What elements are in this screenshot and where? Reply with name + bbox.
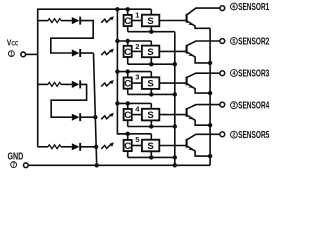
wire C4 top bbox=[127, 103, 129, 109]
svg-text:S: S bbox=[147, 141, 153, 152]
svg-text:3: 3 bbox=[232, 103, 235, 109]
wire C1 bottom bbox=[127, 26, 129, 32]
pin 2 circled label bbox=[230, 131, 237, 138]
pin 7 circled bbox=[11, 162, 17, 168]
junction Vcc bus channel 3 bbox=[115, 69, 119, 73]
wire C5 to S5 bbox=[132, 145, 142, 147]
schmitt trigger S3 bbox=[142, 77, 159, 89]
light arrow channel 4 bbox=[101, 114, 112, 119]
transistor Q1 emitter bbox=[187, 21, 210, 28]
wire S4 output to base bbox=[159, 114, 186, 116]
LED D5 bbox=[72, 143, 80, 150]
transistor Q2 emitter arrow bbox=[188, 55, 194, 57]
light arrow channel 2 bbox=[101, 50, 112, 55]
transistor Q1 base bar bbox=[186, 14, 188, 23]
svg-text:S: S bbox=[147, 16, 153, 27]
LED D1 bbox=[72, 17, 80, 24]
wire C2 to S2 bbox=[132, 50, 142, 52]
junction Q3 emitter-emitter bus bbox=[208, 91, 212, 95]
left Vcc bus wire bbox=[37, 9, 39, 147]
junction S3 bottom bbox=[149, 92, 153, 96]
pin 5 circled label bbox=[230, 38, 237, 45]
transistor Q4 emitter arrow bbox=[188, 118, 194, 120]
schmitt trigger S5 bbox=[142, 140, 159, 152]
svg-text:SENSOR5: SENSOR5 bbox=[238, 130, 270, 141]
junction channel 5 bottom-detector bus bbox=[173, 155, 177, 159]
channel 5 top wire bbox=[117, 133, 151, 135]
junction S4 bottom bbox=[149, 124, 153, 128]
pin 3 circled label bbox=[230, 102, 237, 109]
svg-text:1: 1 bbox=[10, 51, 13, 57]
photodetector C4 bbox=[124, 109, 132, 120]
wire D5 cathode to cathode bus bbox=[80, 146, 96, 148]
wire S5 bottom bbox=[150, 151, 152, 157]
transistor Q3 collector bbox=[187, 73, 220, 77]
channel 1 bottom wire bbox=[128, 31, 175, 33]
transistor Q2 emitter bbox=[187, 52, 210, 63]
channel 2 bottom wire bbox=[128, 63, 175, 65]
wire S5 output to base bbox=[159, 145, 186, 147]
wire S3 output to base bbox=[159, 82, 186, 84]
junction D4-cathode bus bbox=[93, 115, 97, 119]
output pin 6 terminal bbox=[220, 6, 225, 11]
svg-text:C: C bbox=[124, 16, 131, 27]
wire C1 to S1 bbox=[132, 20, 142, 22]
transistor Q5 base bar bbox=[186, 139, 188, 148]
junction channel 3 bottom-detector bus bbox=[173, 92, 177, 96]
svg-text:7: 7 bbox=[12, 162, 15, 168]
transistor Q5 emitter arrow bbox=[188, 149, 194, 151]
Vcc distribution bus wire bbox=[117, 9, 127, 134]
wire D2 cathode to cathode bus bbox=[80, 52, 93, 54]
output pin 5 terminal bbox=[220, 39, 225, 44]
transistor Q5 collector bbox=[187, 134, 220, 139]
svg-text:3: 3 bbox=[135, 73, 139, 82]
wire S5 top bbox=[150, 134, 152, 140]
wire C5 top bbox=[127, 134, 129, 140]
wire C3 bottom bbox=[127, 89, 129, 95]
wire S1 output to base bbox=[159, 20, 186, 22]
pin 6 circled label bbox=[230, 3, 237, 10]
svg-text:S: S bbox=[147, 47, 153, 58]
resistor R3 bbox=[38, 146, 48, 148]
wire D3 cathode to serpentine bbox=[51, 84, 86, 117]
wire S1 bottom bbox=[150, 26, 152, 31]
channel 4 bottom wire bbox=[128, 126, 175, 128]
junction Q2 emitter-emitter bus bbox=[208, 61, 212, 65]
resistor R2 bbox=[38, 83, 48, 85]
light arrow channel 5 bbox=[101, 144, 112, 149]
svg-text:SENSOR4: SENSOR4 bbox=[238, 101, 270, 112]
Vcc pin terminal bbox=[21, 52, 26, 57]
wire S4 bottom bbox=[150, 120, 152, 126]
transistor Q4 emitter bbox=[187, 115, 210, 125]
transistor Q4 collector bbox=[187, 105, 220, 109]
junction S5 bottom bbox=[149, 155, 153, 159]
channel 3 top wire bbox=[117, 71, 151, 73]
wire S1 top bbox=[150, 9, 152, 14]
top Vcc bus wire bbox=[37, 8, 151, 10]
svg-text:5: 5 bbox=[232, 39, 235, 45]
channel 4 top wire bbox=[117, 102, 151, 104]
junction Q5 emitter-emitter bus bbox=[208, 154, 212, 158]
svg-text:C: C bbox=[124, 110, 131, 121]
junction Vcc bus channel 2 bbox=[115, 39, 119, 43]
wire S3 bottom bbox=[150, 89, 152, 95]
schmitt trigger S4 bbox=[142, 109, 159, 121]
junction D5-cathode bus bbox=[94, 145, 98, 149]
channel 3 bottom wire bbox=[128, 93, 175, 95]
junction channel 2 bottom-detector bus bbox=[173, 62, 177, 66]
photodetector C2 bbox=[124, 46, 132, 57]
wire C5 bottom bbox=[127, 151, 129, 157]
ground bus wire bbox=[28, 164, 210, 166]
pin 4 circled label bbox=[230, 70, 237, 77]
emitter bus wire bbox=[209, 28, 211, 165]
wire Vcc pin to left bus bbox=[26, 53, 38, 55]
schmitt trigger S1 bbox=[142, 15, 159, 27]
junction Vcc bus channel 1 bbox=[115, 7, 119, 11]
junction C5 top bbox=[126, 132, 130, 136]
wire S3 top bbox=[150, 72, 152, 78]
output pin 4 terminal bbox=[220, 71, 225, 76]
wire C1 top bbox=[127, 9, 129, 15]
wire C3 top bbox=[127, 72, 129, 78]
svg-text:SENSOR1: SENSOR1 bbox=[238, 2, 270, 13]
transistor Q2 collector bbox=[187, 41, 220, 46]
light arrow channel 3 bbox=[101, 81, 112, 86]
svg-text:S: S bbox=[147, 110, 153, 121]
svg-text:2: 2 bbox=[232, 133, 235, 139]
wire C2 bottom bbox=[127, 57, 129, 64]
junction Vcc bus channel 4 bbox=[115, 101, 119, 105]
photodetector C5 bbox=[124, 140, 132, 151]
junction S2 bottom bbox=[149, 62, 153, 66]
wire S2 bottom bbox=[150, 57, 152, 64]
junction C3 top bbox=[126, 69, 130, 73]
junction C1 top bbox=[126, 7, 130, 11]
channel 2 top wire bbox=[117, 40, 151, 42]
svg-text:GND: GND bbox=[8, 151, 24, 162]
junction cathode bus-ground bus bbox=[95, 163, 99, 167]
wire C4 to S4 bbox=[132, 114, 142, 116]
pin 1 circled bbox=[8, 51, 14, 57]
svg-text:SENSOR2: SENSOR2 bbox=[238, 37, 269, 48]
transistor Q1 emitter arrow bbox=[188, 24, 194, 26]
transistor Q3 emitter arrow bbox=[188, 86, 194, 88]
GND pin terminal bbox=[23, 163, 28, 168]
wire S2 output to base bbox=[159, 50, 186, 52]
svg-text:6: 6 bbox=[232, 5, 235, 11]
junction channel 4 bottom-detector bus bbox=[173, 124, 177, 128]
output pin 2 terminal bbox=[220, 132, 225, 137]
junction detector bus-ground bus bbox=[173, 163, 177, 167]
transistor Q2 base bar bbox=[186, 45, 188, 54]
wire S4 top bbox=[150, 103, 152, 108]
junction C2 top bbox=[126, 39, 130, 43]
transistor Q3 base bar bbox=[186, 77, 188, 86]
LED D2 bbox=[72, 49, 80, 56]
photodetector C3 bbox=[124, 78, 132, 89]
wire C3 to S3 bbox=[132, 82, 142, 84]
wire D1 cathode to serpentine bbox=[51, 21, 93, 53]
LED cathode bus wire bbox=[93, 53, 96, 165]
svg-text:S: S bbox=[147, 79, 153, 90]
transistor Q3 emitter bbox=[187, 84, 210, 93]
svg-text:SENSOR3: SENSOR3 bbox=[238, 69, 270, 80]
wire C2 top bbox=[127, 41, 129, 46]
transistor Q1 collector bbox=[187, 8, 220, 15]
svg-text:C: C bbox=[124, 47, 131, 58]
junction S1 bottom bbox=[149, 30, 153, 34]
wire D4 cathode to cathode bus bbox=[80, 116, 95, 118]
svg-text:2: 2 bbox=[135, 42, 139, 51]
svg-text:C: C bbox=[124, 79, 131, 90]
wire C4 bottom bbox=[127, 120, 129, 126]
junction Q4 emitter-emitter bus bbox=[208, 123, 212, 127]
photodetector C1 bbox=[124, 15, 132, 26]
channel 5 bottom wire bbox=[128, 156, 175, 158]
junction C4 top bbox=[126, 101, 130, 105]
svg-text:C: C bbox=[124, 141, 131, 152]
light arrow channel 1 bbox=[101, 17, 112, 22]
resistor R1 bbox=[38, 20, 48, 22]
LED D3 bbox=[72, 81, 80, 88]
wire S2 top bbox=[150, 41, 152, 46]
output pin 3 terminal bbox=[220, 102, 225, 107]
LED D4 bbox=[72, 114, 80, 121]
schmitt trigger S2 bbox=[142, 46, 159, 58]
detector ground bus wire bbox=[174, 32, 176, 166]
transistor Q5 emitter bbox=[187, 146, 210, 156]
transistor Q4 base bar bbox=[186, 108, 188, 117]
